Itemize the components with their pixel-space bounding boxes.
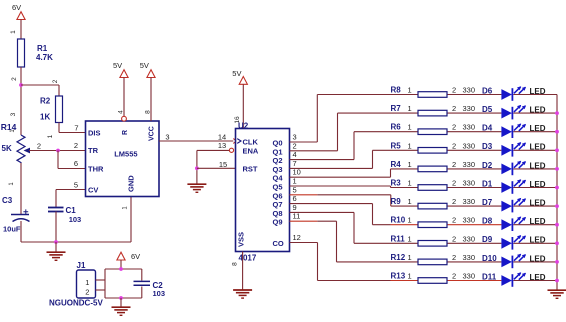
svg-text:2: 2 <box>293 141 297 150</box>
svg-text:LED: LED <box>530 236 546 245</box>
svg-text:CV: CV <box>88 185 98 194</box>
svg-text:330: 330 <box>463 160 476 169</box>
svg-text:D3: D3 <box>482 142 493 151</box>
svg-text:1: 1 <box>408 272 412 281</box>
svg-text:Q1: Q1 <box>273 147 283 156</box>
svg-text:D7: D7 <box>482 198 493 207</box>
svg-text:3: 3 <box>10 112 17 116</box>
svg-text:1: 1 <box>408 123 412 132</box>
svg-text:LED: LED <box>530 180 546 189</box>
svg-text:3: 3 <box>293 133 297 142</box>
svg-text:6: 6 <box>74 159 78 168</box>
svg-text:GND: GND <box>127 175 136 192</box>
svg-text:1: 1 <box>408 253 412 262</box>
svg-text:1: 1 <box>408 197 412 206</box>
svg-text:LED: LED <box>530 143 546 152</box>
svg-text:THR: THR <box>88 164 104 173</box>
svg-text:R9: R9 <box>391 197 402 206</box>
svg-text:Q9: Q9 <box>273 218 283 227</box>
svg-text:C3: C3 <box>2 196 13 205</box>
svg-text:4: 4 <box>293 150 297 159</box>
svg-text:6: 6 <box>293 194 297 203</box>
svg-text:1: 1 <box>408 104 412 113</box>
svg-text:2: 2 <box>53 79 59 83</box>
svg-text:D9: D9 <box>482 235 493 244</box>
svg-text:LED: LED <box>530 161 546 170</box>
svg-text:R6: R6 <box>391 123 402 132</box>
svg-text:1: 1 <box>293 177 297 186</box>
svg-text:Q0: Q0 <box>273 139 283 148</box>
svg-text:1: 1 <box>47 134 54 138</box>
svg-text:1: 1 <box>408 141 412 150</box>
svg-text:330: 330 <box>463 197 476 206</box>
svg-text:5: 5 <box>293 185 297 194</box>
svg-text:330: 330 <box>463 104 476 113</box>
svg-text:DIS: DIS <box>88 128 101 137</box>
svg-text:2: 2 <box>452 272 456 281</box>
svg-text:LED: LED <box>530 217 546 226</box>
svg-text:6V: 6V <box>131 252 140 261</box>
svg-text:2: 2 <box>452 160 456 169</box>
svg-text:NGUONDC-5V: NGUONDC-5V <box>49 299 103 308</box>
svg-text:2: 2 <box>452 86 456 95</box>
svg-text:330: 330 <box>463 179 476 188</box>
svg-text:2: 2 <box>11 77 18 81</box>
svg-text:11: 11 <box>293 212 301 221</box>
svg-text:2: 2 <box>452 253 456 262</box>
svg-text:330: 330 <box>463 86 476 95</box>
svg-text:103: 103 <box>153 289 166 298</box>
svg-text:R7: R7 <box>391 104 402 113</box>
svg-text:D4: D4 <box>482 124 493 133</box>
svg-text:103: 103 <box>69 215 82 224</box>
svg-text:330: 330 <box>463 272 476 281</box>
svg-text:VCC: VCC <box>149 126 156 141</box>
svg-text:1: 1 <box>9 182 15 186</box>
svg-text:10: 10 <box>293 168 301 177</box>
svg-text:1: 1 <box>408 216 412 225</box>
svg-text:R11: R11 <box>391 234 406 243</box>
svg-text:LED: LED <box>530 254 546 263</box>
svg-text:2: 2 <box>85 288 89 297</box>
svg-text:2: 2 <box>452 141 456 150</box>
svg-text:R12: R12 <box>391 253 406 262</box>
svg-text:10uF: 10uF <box>3 225 21 234</box>
svg-text:1: 1 <box>408 160 412 169</box>
svg-text:8: 8 <box>232 262 239 266</box>
svg-text:LED: LED <box>530 199 546 208</box>
svg-text:4017: 4017 <box>239 253 257 262</box>
svg-text:Q4: Q4 <box>273 174 284 183</box>
svg-text:2: 2 <box>452 123 456 132</box>
svg-text:ENA: ENA <box>243 147 259 156</box>
svg-text:1: 1 <box>10 30 17 34</box>
svg-text:2: 2 <box>452 234 456 243</box>
svg-text:7: 7 <box>293 159 297 168</box>
svg-text:R10: R10 <box>391 216 406 225</box>
svg-text:Q5: Q5 <box>273 183 283 192</box>
svg-text:4: 4 <box>118 110 125 114</box>
svg-text:LED: LED <box>530 87 546 96</box>
svg-text:R2: R2 <box>40 97 51 106</box>
svg-text:5K: 5K <box>2 144 12 153</box>
svg-text:1: 1 <box>408 234 412 243</box>
svg-text:15: 15 <box>219 160 227 169</box>
svg-text:Q2: Q2 <box>273 156 283 165</box>
svg-text:J1: J1 <box>77 261 86 270</box>
svg-text:4.7K: 4.7K <box>36 53 53 62</box>
svg-text:CO: CO <box>273 239 284 248</box>
svg-text:LED: LED <box>530 124 546 133</box>
svg-text:12: 12 <box>293 233 301 242</box>
svg-text:2: 2 <box>452 104 456 113</box>
svg-text:330: 330 <box>463 141 476 150</box>
svg-text:LED: LED <box>530 106 546 115</box>
svg-text:1: 1 <box>408 179 412 188</box>
svg-text:1K: 1K <box>40 113 50 122</box>
svg-text:Q6: Q6 <box>273 191 283 200</box>
svg-text:Q3: Q3 <box>273 165 283 174</box>
svg-text:D1: D1 <box>482 179 493 188</box>
svg-text:R3: R3 <box>391 179 402 188</box>
svg-text:D5: D5 <box>482 105 493 114</box>
svg-text:330: 330 <box>463 216 476 225</box>
svg-text:D2: D2 <box>482 161 493 170</box>
svg-text:R5: R5 <box>391 141 402 150</box>
svg-text:2: 2 <box>452 197 456 206</box>
svg-text:R8: R8 <box>391 86 402 95</box>
svg-text:330: 330 <box>463 234 476 243</box>
svg-text:D11: D11 <box>482 272 497 281</box>
svg-text:5: 5 <box>74 181 78 190</box>
svg-text:R13: R13 <box>391 272 406 281</box>
svg-text:8: 8 <box>145 110 152 114</box>
svg-text:D8: D8 <box>482 217 493 226</box>
svg-text:2: 2 <box>74 141 78 150</box>
svg-text:LM555: LM555 <box>114 150 137 159</box>
svg-text:CLK: CLK <box>243 137 259 146</box>
svg-text:3: 3 <box>165 132 169 141</box>
svg-text:2: 2 <box>452 179 456 188</box>
svg-text:9: 9 <box>293 203 297 212</box>
svg-text:1: 1 <box>85 278 89 287</box>
svg-text:2: 2 <box>452 216 456 225</box>
svg-text:TR: TR <box>88 146 99 155</box>
svg-text:6V: 6V <box>12 3 21 12</box>
svg-text:RST: RST <box>243 164 258 173</box>
svg-text:1: 1 <box>408 86 412 95</box>
svg-text:VSS: VSS <box>237 232 246 247</box>
svg-text:13: 13 <box>218 141 226 150</box>
svg-text:Q7: Q7 <box>273 200 283 209</box>
svg-text:330: 330 <box>463 253 476 262</box>
svg-text:5V: 5V <box>232 69 241 78</box>
svg-text:R1: R1 <box>37 44 48 53</box>
svg-text:R4: R4 <box>391 160 402 169</box>
svg-text:R: R <box>122 130 129 135</box>
svg-text:5V: 5V <box>140 61 149 70</box>
svg-text:C1: C1 <box>66 206 77 215</box>
svg-text:Q8: Q8 <box>273 209 283 218</box>
svg-text:7: 7 <box>74 124 78 133</box>
svg-text:D6: D6 <box>482 86 493 95</box>
svg-text:5V: 5V <box>113 61 122 70</box>
svg-text:LED: LED <box>530 273 546 282</box>
svg-text:1: 1 <box>123 206 129 210</box>
svg-text:330: 330 <box>463 123 476 132</box>
svg-text:2: 2 <box>37 142 41 151</box>
svg-text:D10: D10 <box>482 254 497 263</box>
